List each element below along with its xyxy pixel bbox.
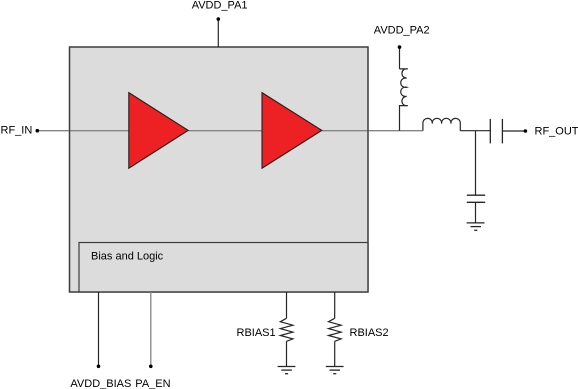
main PA block border redraw (70, 47, 369, 292)
wire RF input line (37, 130, 129, 132)
resistor RBIAS1 (280, 292, 293, 367)
pin AVDD_BIAS (97, 292, 101, 368)
svg-text:RBIAS2: RBIAS2 (350, 327, 389, 339)
ground (output filter) (467, 223, 485, 230)
resistor RBIAS2 (329, 292, 342, 367)
pin RF_OUT (524, 129, 528, 133)
svg-text:RBIAS1: RBIAS1 (237, 327, 276, 339)
amplifier A1 (129, 93, 188, 169)
wire output line (gray) (322, 130, 423, 132)
svg-text:Bias and Logic: Bias and Logic (91, 250, 164, 262)
capacitor C2 (series) (490, 119, 502, 143)
ground RBIAS2 (326, 367, 344, 374)
amplifier A2 (262, 93, 322, 169)
svg-text:AVDD_PA1: AVDD_PA1 (192, 0, 248, 12)
Bias and Logic block (79, 243, 368, 293)
pin RF_IN (36, 129, 40, 133)
svg-text:RF_OUT: RF_OUT (535, 126, 578, 138)
main PA block (70, 47, 369, 292)
wire L2 to C2 (460, 130, 490, 132)
wire interstage line (188, 130, 262, 132)
inductor L1 (400, 69, 408, 131)
svg-text:RF_IN: RF_IN (1, 124, 33, 136)
pin AVDD_PA1 (217, 17, 221, 47)
svg-text:AVDD_BIAS: AVDD_BIAS (70, 378, 131, 389)
svg-text:PA_EN: PA_EN (135, 378, 170, 389)
svg-text:AVDD_PA2: AVDD_PA2 (374, 24, 430, 36)
wire C2 to RF_OUT (502, 130, 525, 132)
capacitor C1 (shunt) (467, 131, 485, 223)
ground RBIAS1 (278, 367, 296, 374)
inductor L2 (423, 118, 460, 130)
pin AVDD_PA2 (398, 45, 402, 69)
pin PA_EN (149, 292, 153, 368)
